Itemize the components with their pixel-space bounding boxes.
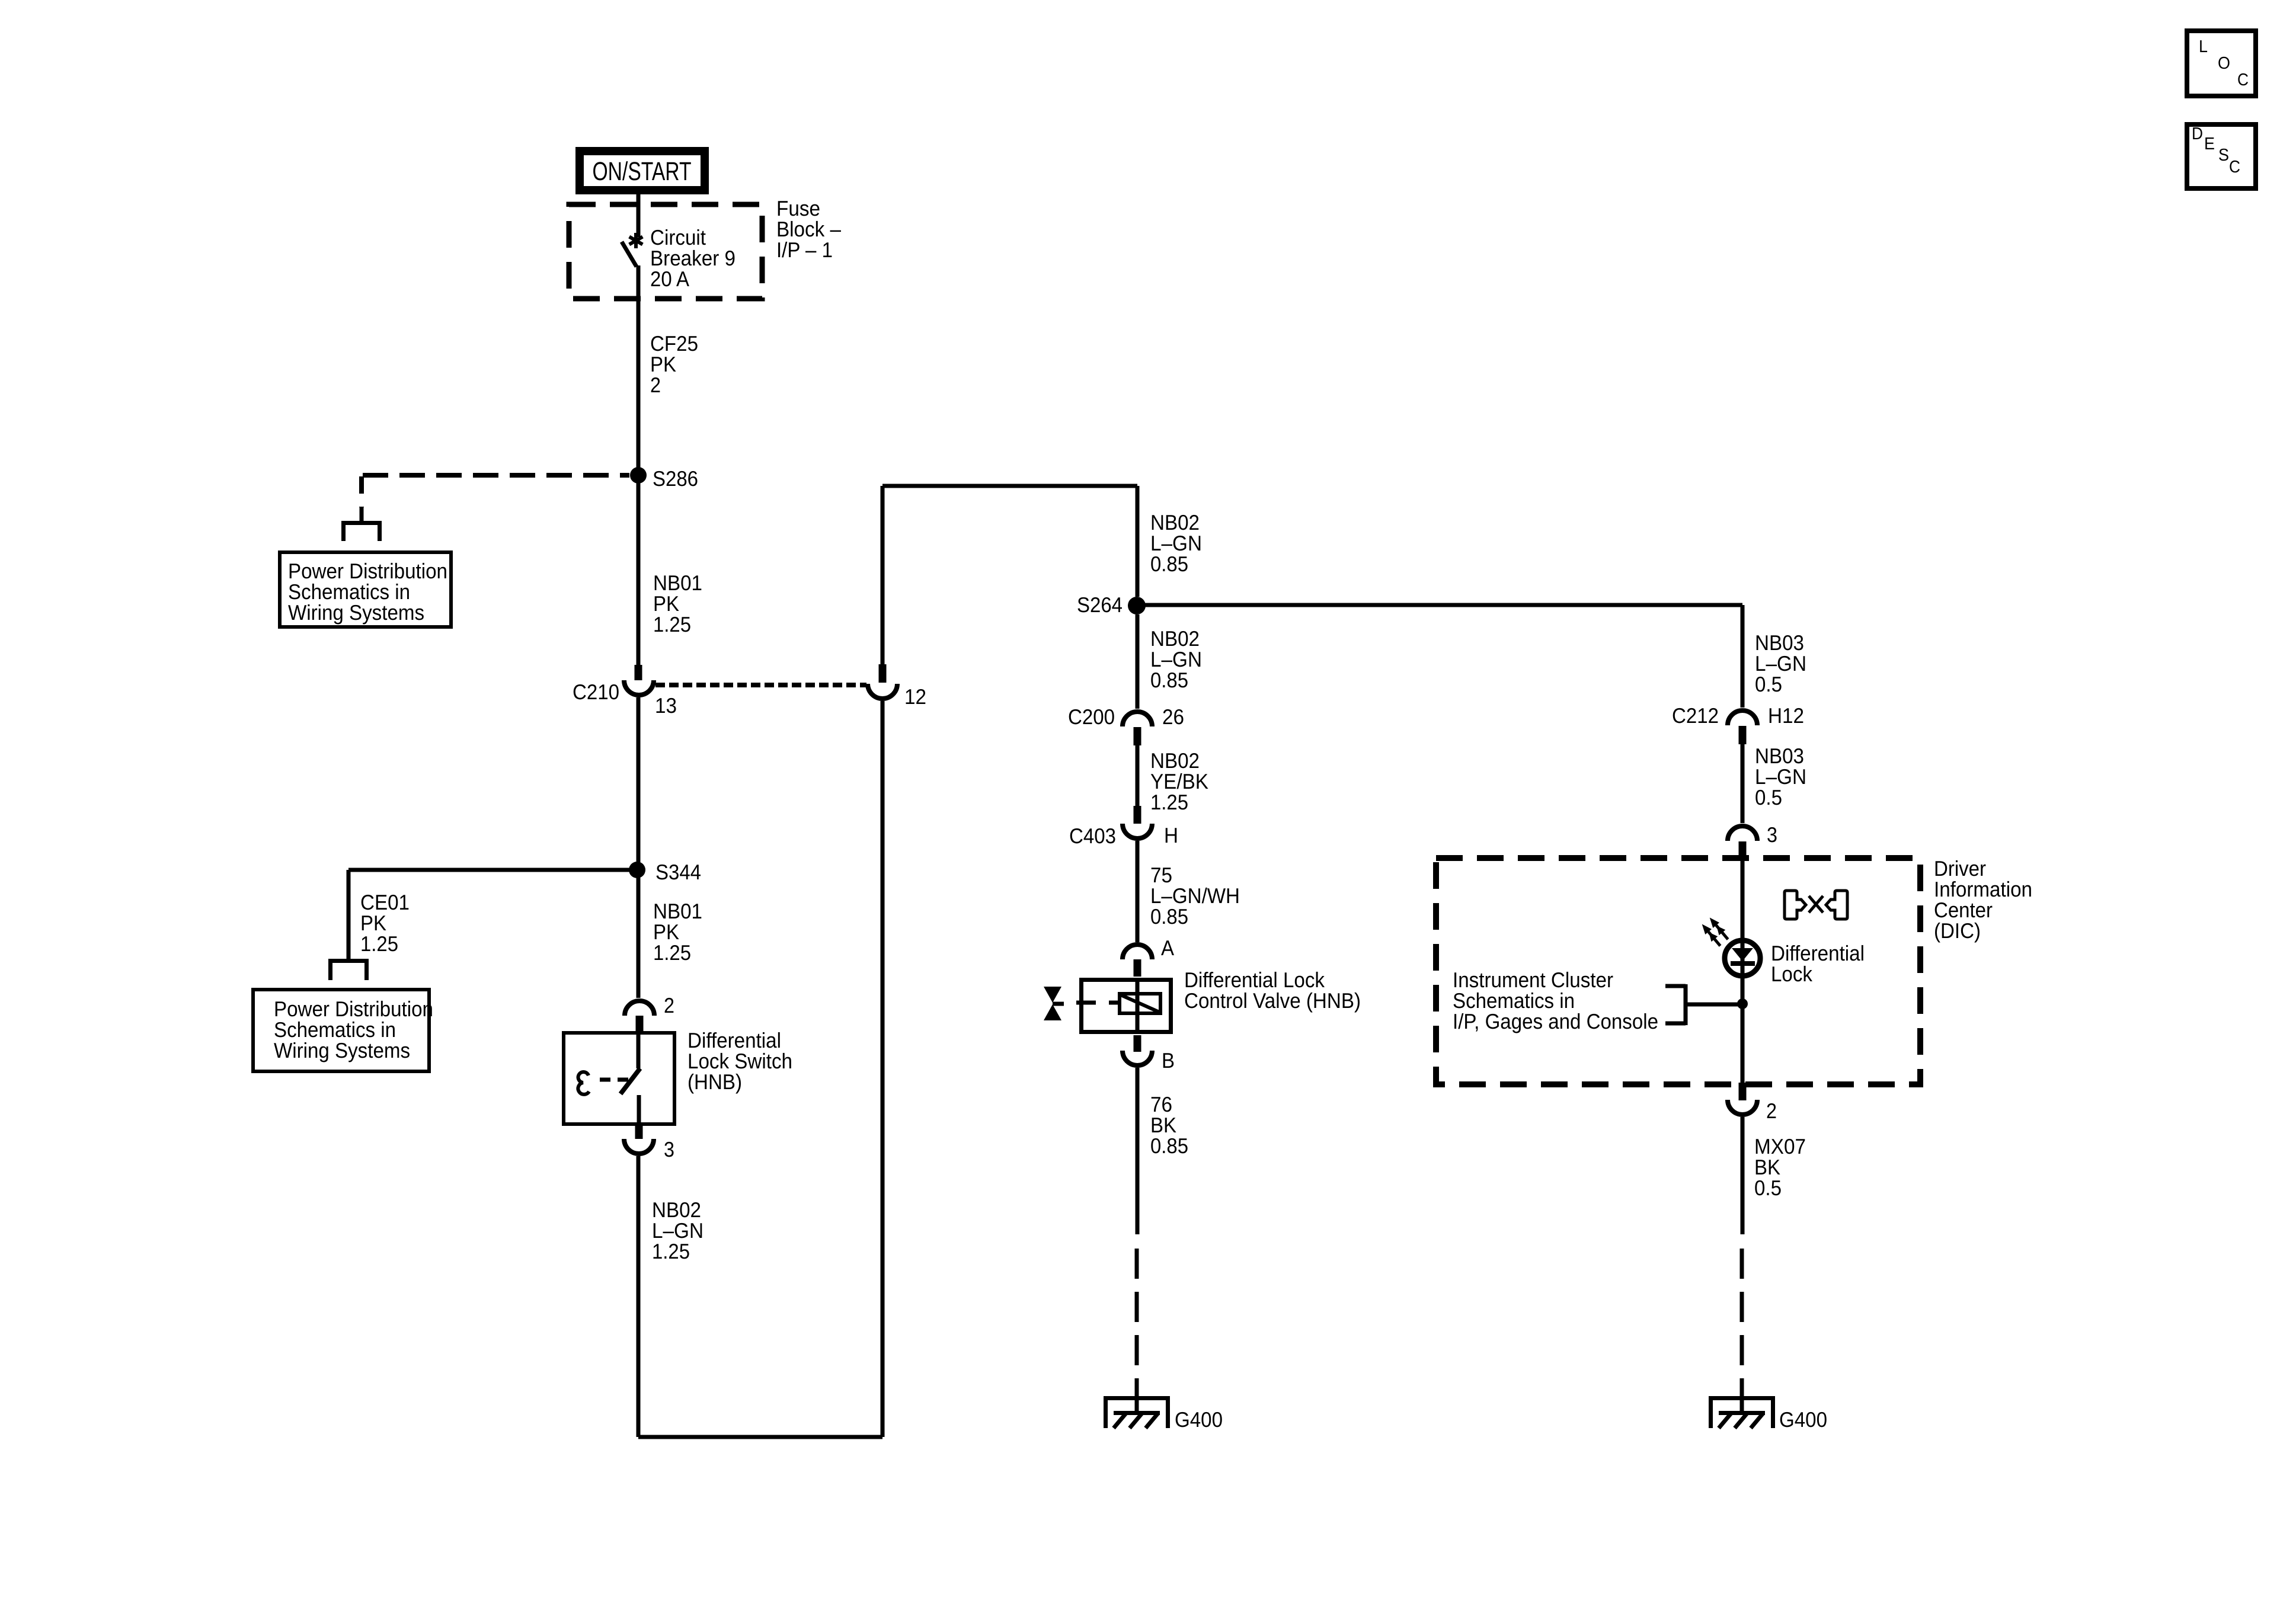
- svg-text:2: 2: [1766, 1099, 1777, 1123]
- svg-text:L: L: [2199, 37, 2208, 56]
- svg-text:3: 3: [664, 1137, 674, 1161]
- svg-text:Lock: Lock: [1771, 962, 1813, 986]
- svg-text:H: H: [1164, 823, 1178, 847]
- svg-text:2: 2: [664, 993, 674, 1017]
- svg-text:1.25: 1.25: [652, 1239, 690, 1263]
- svg-text:ON/START: ON/START: [593, 157, 692, 186]
- svg-text:0.85: 0.85: [1150, 552, 1188, 576]
- svg-text:A: A: [1161, 936, 1174, 960]
- svg-text:0.5: 0.5: [1755, 785, 1782, 809]
- svg-text:12: 12: [904, 684, 926, 709]
- svg-text:I/P, Gages and Console: I/P, Gages and Console: [1453, 1009, 1658, 1033]
- svg-text:3: 3: [1767, 822, 1777, 847]
- svg-text:C200: C200: [1068, 705, 1115, 729]
- svg-text:C: C: [2237, 71, 2249, 89]
- svg-text:(HNB): (HNB): [687, 1070, 742, 1094]
- svg-text:Wiring Systems: Wiring Systems: [288, 600, 424, 625]
- svg-text:0.5: 0.5: [1754, 1176, 1782, 1200]
- svg-text:C: C: [2229, 158, 2240, 177]
- svg-text:C403: C403: [1069, 824, 1116, 848]
- svg-text:B: B: [1162, 1048, 1175, 1073]
- svg-text:0.85: 0.85: [1150, 1134, 1188, 1158]
- svg-text:1.25: 1.25: [653, 612, 691, 636]
- svg-text:1.25: 1.25: [1150, 790, 1188, 814]
- svg-text:1.25: 1.25: [360, 932, 398, 956]
- svg-text:26: 26: [1162, 705, 1184, 729]
- svg-text:20 A: 20 A: [650, 267, 689, 291]
- svg-text:S344: S344: [655, 860, 701, 884]
- svg-text:0.5: 0.5: [1755, 672, 1782, 696]
- svg-text:Control Valve (HNB): Control Valve (HNB): [1184, 988, 1361, 1013]
- svg-text:13: 13: [655, 693, 677, 718]
- svg-text:C212: C212: [1672, 703, 1719, 728]
- svg-text:2: 2: [650, 373, 661, 397]
- svg-text:0.85: 0.85: [1150, 668, 1188, 692]
- svg-text:E: E: [2204, 135, 2215, 153]
- svg-text:D: D: [2192, 124, 2203, 143]
- svg-text:S286: S286: [653, 466, 698, 491]
- svg-text:G400: G400: [1175, 1407, 1223, 1432]
- svg-text:Wiring Systems: Wiring Systems: [274, 1038, 410, 1062]
- svg-text:1.25: 1.25: [653, 940, 691, 965]
- svg-text:O: O: [2218, 54, 2230, 73]
- svg-text:0.85: 0.85: [1150, 904, 1188, 929]
- svg-text:S264: S264: [1077, 593, 1123, 617]
- svg-text:S: S: [2218, 146, 2229, 165]
- svg-text:(DIC): (DIC): [1934, 918, 1981, 943]
- svg-text:G400: G400: [1779, 1407, 1827, 1432]
- svg-text:C210: C210: [573, 680, 619, 704]
- svg-text:H12: H12: [1768, 703, 1804, 728]
- svg-text:I/P – 1: I/P – 1: [776, 238, 833, 262]
